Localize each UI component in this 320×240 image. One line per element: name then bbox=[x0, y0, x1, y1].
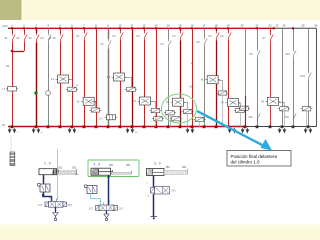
pipe 3 cyl to valve bbox=[153, 176, 155, 188]
wire K4 to Y stub bbox=[151, 101, 156, 103]
junction bottom bus x270 bbox=[269, 125, 272, 128]
junction bottom bus x48 bbox=[47, 125, 50, 128]
contact K6 on rung 19 bbox=[228, 31, 230, 33]
valve 2V1 body bbox=[99, 205, 114, 211]
wire K8 to Y stub bbox=[279, 102, 285, 104]
bottom bus black segment bbox=[246, 126, 316, 128]
contact S5 on rung 5 bbox=[60, 33, 62, 35]
wire rung 2 to jog bbox=[24, 43, 26, 52]
junction top bus x228 bbox=[227, 27, 229, 29]
cylinder 1.0 body bbox=[39, 169, 57, 175]
wire rung 17 upper bbox=[204, 28, 206, 37]
pipe 2 cyl to valve bbox=[108, 175, 110, 205]
svg-text:12: 12 bbox=[143, 23, 146, 27]
pipe 3 valve down bbox=[153, 194, 155, 217]
wire rung 21 upper bbox=[257, 28, 259, 49]
wire rung 18 upper bbox=[216, 28, 218, 31]
wire rung 13 bbox=[156, 28, 158, 127]
svg-text:1 . 0: 1 . 0 bbox=[44, 162, 51, 166]
cylinder 2.0 body bbox=[91, 168, 111, 175]
relay coil K6 bbox=[207, 76, 218, 84]
junction bottom bus x60 bbox=[59, 125, 62, 128]
junction top bus x12 bbox=[11, 27, 13, 29]
wire K1 to Y stub bbox=[69, 79, 73, 81]
wire rung 26 bbox=[316, 28, 318, 127]
valve 3V1 body bbox=[155, 187, 170, 195]
wire rung 4 upper bbox=[48, 28, 50, 33]
contact K10 on rung 25 bbox=[308, 71, 310, 73]
air source 1 bbox=[53, 213, 58, 217]
cylinder 1.0 piston bbox=[52, 169, 53, 174]
junction top bus x60 bbox=[59, 27, 61, 29]
contact arm rung4 bbox=[48, 37, 51, 41]
wire K6 to Y stub bbox=[218, 80, 222, 82]
junction top bus x132 bbox=[131, 27, 133, 29]
contact K10 on rung 24 bbox=[293, 49, 295, 51]
green node marker bbox=[34, 91, 37, 94]
roller valve 2S1 bbox=[87, 186, 97, 194]
valve solenoid 3Y2c bbox=[236, 108, 245, 112]
junction top bus x24 bbox=[23, 27, 25, 29]
svg-text:3S1: 3S1 bbox=[285, 116, 290, 119]
valve solenoid Y20c bbox=[240, 106, 249, 110]
under-bus link arrow x245 bbox=[242, 128, 244, 130]
wire rung 12 lower bbox=[144, 41, 146, 127]
component box rung1 bbox=[8, 87, 17, 92]
cylinder 2.0 rod bbox=[99, 171, 112, 173]
valve solenoid Y5c bbox=[183, 109, 192, 113]
svg-text:1Y2: 1Y2 bbox=[68, 204, 73, 207]
wire rung 3 upper bbox=[36, 28, 38, 33]
pipe 1 cyl to valve bbox=[43, 175, 45, 184]
wire K7 to Y stub bbox=[239, 103, 241, 105]
under-bus link arrow x282 bbox=[279, 128, 281, 130]
wire Y stub drops bbox=[155, 113, 157, 127]
solenoid 1Y1 bbox=[45, 202, 49, 207]
valve solenoid Y9c bbox=[302, 107, 311, 111]
wire rung 19 upper bbox=[228, 28, 230, 31]
relay coil K2 bbox=[83, 97, 94, 105]
valve solenoid 2Y1c bbox=[91, 108, 100, 112]
junction bottom bus x308 bbox=[307, 125, 310, 128]
svg-text:2 . 0: 2 . 0 bbox=[94, 162, 101, 166]
contact S2 on rung 2 bbox=[24, 33, 26, 35]
pipe 1 valve down bbox=[43, 192, 45, 196]
cylinder 2.0 distance rule bbox=[112, 172, 132, 174]
valve solenoid 3Y1c bbox=[218, 91, 227, 95]
khaki corner block bbox=[0, 0, 22, 20]
svg-text:1Y1: 1Y1 bbox=[38, 204, 43, 207]
contact K2 on rung 10 bbox=[120, 31, 122, 33]
wire rung2 jog to rung1 bbox=[12, 51, 24, 53]
junction bottom bus x36 bbox=[35, 125, 38, 128]
junction top bus x293 bbox=[292, 27, 294, 29]
svg-text:22: 22 bbox=[269, 23, 272, 27]
junction bottom bus x84 bbox=[83, 125, 86, 128]
junction bottom bus x96 bbox=[95, 125, 98, 128]
under-bus link arrow x190 bbox=[187, 128, 189, 130]
wire sensor cyan 2 bbox=[90, 194, 92, 199]
wire rung 22 lower bbox=[270, 43, 272, 127]
pipe 3 end plug bbox=[151, 216, 157, 218]
junction top bus x84 bbox=[83, 27, 85, 29]
svg-text:1B2: 1B2 bbox=[72, 166, 77, 169]
wire rung 9 lower bbox=[108, 49, 110, 127]
svg-text:2: 2 bbox=[58, 198, 59, 200]
wire rung 2 upper bbox=[24, 28, 26, 33]
junction top bus x96 bbox=[95, 27, 97, 29]
wire rung 1 upper bbox=[12, 28, 14, 33]
svg-text:2S1: 2S1 bbox=[249, 116, 254, 119]
cylinder 3.0 rod bbox=[152, 172, 164, 174]
junction bottom bus x72 bbox=[71, 125, 74, 128]
svg-text:16: 16 bbox=[191, 23, 194, 27]
junction top bus x144 bbox=[143, 27, 145, 29]
svg-text:20: 20 bbox=[241, 23, 244, 27]
valve solenoid Y10c bbox=[154, 117, 163, 121]
contact K2 on rung 9 bbox=[108, 39, 110, 41]
junction top bus x257 bbox=[256, 27, 258, 29]
wire rung 4 lower bbox=[48, 43, 50, 127]
wire rung 16 bbox=[192, 28, 194, 127]
junction bottom bus x228 bbox=[227, 125, 230, 128]
svg-text:3B1: 3B1 bbox=[166, 166, 171, 169]
wire rung 20 energized tail bbox=[245, 96, 247, 127]
wire rung 17 lower bbox=[204, 47, 206, 127]
svg-text:1Y1: 1Y1 bbox=[99, 117, 104, 120]
wire rung 10 upper bbox=[120, 28, 122, 31]
cylinder 3.0 piston bbox=[148, 169, 149, 175]
wire rung 25 lower bbox=[308, 81, 310, 127]
top bus black segment bbox=[274, 27, 316, 29]
contact K5 on rung 17 bbox=[204, 37, 206, 39]
junction bottom bus x257 bbox=[256, 125, 259, 128]
under-bus link arrow x130 bbox=[127, 128, 129, 130]
cylinder 1.0 rod bbox=[56, 170, 59, 172]
wire rung 22 upper bbox=[270, 28, 272, 33]
relay coil K1 bbox=[58, 75, 69, 83]
junction top bus x72 bbox=[71, 27, 73, 29]
contact S4 on rung 4 bbox=[48, 33, 50, 35]
wire rung 11 bbox=[132, 28, 134, 127]
wire rung 25 upper bbox=[308, 28, 310, 71]
green frame cylinder 2.0 bbox=[88, 160, 139, 177]
svg-text:+24V: +24V bbox=[2, 24, 8, 28]
wire rung 19 lower bbox=[228, 41, 230, 127]
svg-text:14: 14 bbox=[167, 23, 170, 27]
relay coil K5 bbox=[173, 98, 184, 106]
wire rung 24 lower bbox=[293, 59, 295, 127]
contact S1 on rung 1 bbox=[12, 33, 14, 35]
valve solenoid 1Y1c bbox=[68, 87, 77, 91]
valve solenoid Y11c bbox=[172, 117, 181, 121]
wire rung 3 lower bbox=[36, 43, 38, 127]
terminal strip bbox=[10, 152, 15, 166]
junction bottom bus x168 bbox=[167, 125, 170, 128]
green highlight circle bbox=[162, 94, 197, 123]
contact 2S1 rung21 lower bbox=[257, 112, 259, 114]
svg-text:25: 25 bbox=[302, 23, 305, 27]
svg-text:1B1: 1B1 bbox=[58, 166, 63, 169]
svg-text:24: 24 bbox=[283, 23, 286, 27]
svg-text:10: 10 bbox=[119, 23, 122, 27]
wire rung 7 upper bbox=[84, 28, 86, 31]
wire rung 18 lower bbox=[216, 41, 218, 127]
junction top bus x180 bbox=[179, 27, 181, 29]
solenoid 2Y2 bbox=[114, 206, 118, 211]
roller valve 1S1 bbox=[40, 184, 50, 192]
valve solenoid Y8c bbox=[280, 107, 289, 111]
svg-text:K10: K10 bbox=[286, 53, 291, 56]
wire K2 to Y stub bbox=[92, 101, 96, 103]
cylinder 3.0 distance rule bbox=[164, 171, 187, 175]
valve solenoid Y5e bbox=[166, 111, 175, 115]
relay coil K4 bbox=[140, 97, 151, 105]
wire sensor cyan 1 bbox=[57, 149, 59, 199]
svg-text:0V: 0V bbox=[2, 123, 5, 127]
cylinder 3.0 body bbox=[147, 169, 165, 176]
under-bus link arrow x308 bbox=[305, 128, 307, 130]
junction bottom bus x108 bbox=[107, 125, 110, 128]
contact K8 on rung 21 bbox=[257, 49, 259, 51]
valve solenoid Y1 bbox=[8, 87, 17, 91]
junction top bus x156 bbox=[155, 27, 157, 29]
junction pipe2 bbox=[107, 176, 109, 178]
wire rung 20 bbox=[245, 28, 247, 127]
solenoid 2Y1 bbox=[96, 206, 100, 211]
svg-text:15: 15 bbox=[179, 23, 182, 27]
wire rung 12 upper bbox=[144, 28, 146, 31]
svg-text:13: 13 bbox=[155, 23, 158, 27]
junction rung1/rung2 bbox=[11, 50, 13, 52]
svg-text:K11: K11 bbox=[190, 86, 195, 89]
wire K5 to Y stub bbox=[184, 102, 188, 104]
wire rung 5 upper bbox=[60, 28, 62, 33]
svg-text:3Y1: 3Y1 bbox=[172, 190, 177, 193]
valve 1V1 body bbox=[49, 202, 64, 208]
contact K3 on rung 12 bbox=[144, 31, 146, 33]
junction top bus x216 bbox=[215, 27, 217, 29]
cylinder 1.0 distance rule bbox=[59, 171, 77, 174]
indicator lamp H1 bbox=[46, 91, 51, 96]
junction bottom bus x245 bbox=[244, 125, 247, 128]
cyan callout arrow bbox=[197, 111, 264, 146]
svg-text:3 . 0: 3 . 0 bbox=[154, 162, 161, 166]
pipe 1 valve exhaust bbox=[55, 207, 57, 212]
contact K6 on rung 18 bbox=[216, 31, 218, 33]
junction top bus x274 bbox=[273, 27, 275, 29]
svg-text:4: 4 bbox=[49, 198, 50, 200]
svg-text:4: 4 bbox=[100, 201, 101, 203]
wire rung 1 lower bbox=[12, 43, 14, 127]
top +24V bus red segment bbox=[8, 27, 274, 29]
wire rung 23 bbox=[282, 28, 284, 127]
under-bus link arrow x12 bbox=[9, 128, 11, 130]
cylinder 2.0 piston bbox=[92, 169, 93, 175]
junction bottom bus x156 bbox=[155, 125, 158, 128]
junction bottom bus x293 bbox=[292, 125, 295, 128]
junction bottom bus x216 bbox=[215, 125, 218, 128]
svg-text:3B2: 3B2 bbox=[182, 166, 187, 169]
under-bus link arrow x232 bbox=[229, 128, 231, 130]
solenoid 3Y1 bbox=[151, 188, 155, 194]
svg-text:2Y2: 2Y2 bbox=[119, 207, 124, 210]
callout text box bbox=[227, 151, 291, 167]
junction top bus x36 bbox=[35, 27, 37, 29]
bottom 0V bus red segment bbox=[8, 126, 246, 128]
under-bus link arrow x36 bbox=[33, 128, 35, 130]
wire rung 21 lower bbox=[257, 59, 259, 127]
junction bottom bus x192 bbox=[191, 125, 194, 128]
air source 2 bbox=[104, 214, 109, 218]
svg-text:18: 18 bbox=[215, 23, 218, 27]
wire rung 15 lower bbox=[180, 41, 182, 127]
wire rung 9 upper bbox=[108, 28, 110, 39]
svg-text:23: 23 bbox=[276, 23, 279, 27]
svg-text:11: 11 bbox=[131, 23, 134, 27]
svg-text:K10: K10 bbox=[301, 75, 306, 78]
svg-text:2Y1: 2Y1 bbox=[89, 207, 94, 210]
junction bottom bus x204 bbox=[203, 125, 206, 128]
relay coil K7 bbox=[228, 99, 239, 107]
solenoid 1Y2 bbox=[63, 202, 67, 207]
svg-text:2: 2 bbox=[110, 201, 111, 203]
svg-text:2B1: 2B1 bbox=[109, 164, 114, 167]
valve solenoid Y5d bbox=[195, 117, 204, 121]
timer 1Y1 box bbox=[107, 115, 116, 120]
junction bottom bus x12 bbox=[11, 125, 14, 128]
junction top bus x192 bbox=[191, 27, 193, 29]
wire rung 14 upper bbox=[168, 28, 170, 39]
junction bottom bus x132 bbox=[131, 125, 134, 128]
relay coil K8 bbox=[268, 97, 279, 105]
contact K7 on rung 22 bbox=[270, 33, 272, 35]
contact S3 on rung 3 bbox=[36, 33, 38, 35]
wire rung 7 lower bbox=[84, 41, 86, 127]
wire rung 15 upper bbox=[180, 28, 182, 31]
contact K1 on rung 7 bbox=[84, 31, 86, 33]
svg-text:del cilindro 1.0: del cilindro 1.0 bbox=[231, 160, 261, 165]
contact 3S1 rung24 lower bbox=[293, 112, 295, 114]
svg-text:17: 17 bbox=[203, 23, 206, 27]
valve 2V1 port ticks bbox=[103, 202, 105, 205]
svg-text:19: 19 bbox=[227, 23, 230, 27]
svg-text:Posición final delantera: Posición final delantera bbox=[231, 154, 278, 159]
wire rung 6 bbox=[72, 28, 74, 127]
pipe 2 valve exhaust bbox=[106, 211, 108, 214]
svg-text:21: 21 bbox=[256, 23, 259, 27]
junction bottom bus x120 bbox=[119, 125, 122, 128]
svg-text:26: 26 bbox=[315, 23, 318, 27]
junction bottom bus x282 bbox=[281, 125, 284, 128]
valve 1V1 port ticks bbox=[51, 199, 53, 202]
relay coil K3 bbox=[114, 73, 125, 81]
wire K3 to Y stub bbox=[125, 77, 132, 79]
wire rung 5 lower bbox=[60, 43, 62, 127]
under-bus link arrow x72 bbox=[69, 128, 71, 130]
svg-text:2B2: 2B2 bbox=[126, 164, 131, 167]
valve solenoid 1Y2c bbox=[127, 87, 136, 91]
wire rung 14 lower bbox=[168, 49, 170, 127]
wire rung 8 bbox=[96, 28, 98, 127]
contact K4 on rung 14 bbox=[168, 39, 170, 41]
wire rung 10 lower bbox=[120, 41, 122, 127]
junction pipe1 bbox=[42, 194, 44, 196]
junction bottom bus x144 bbox=[143, 125, 146, 128]
valve solenoid 2Y2c bbox=[151, 109, 160, 113]
junction top bus x120 bbox=[119, 27, 121, 29]
junction bottom bus x180 bbox=[179, 125, 182, 128]
wire rung 24 upper bbox=[293, 28, 295, 49]
contact K4 on rung 15 bbox=[180, 31, 182, 33]
